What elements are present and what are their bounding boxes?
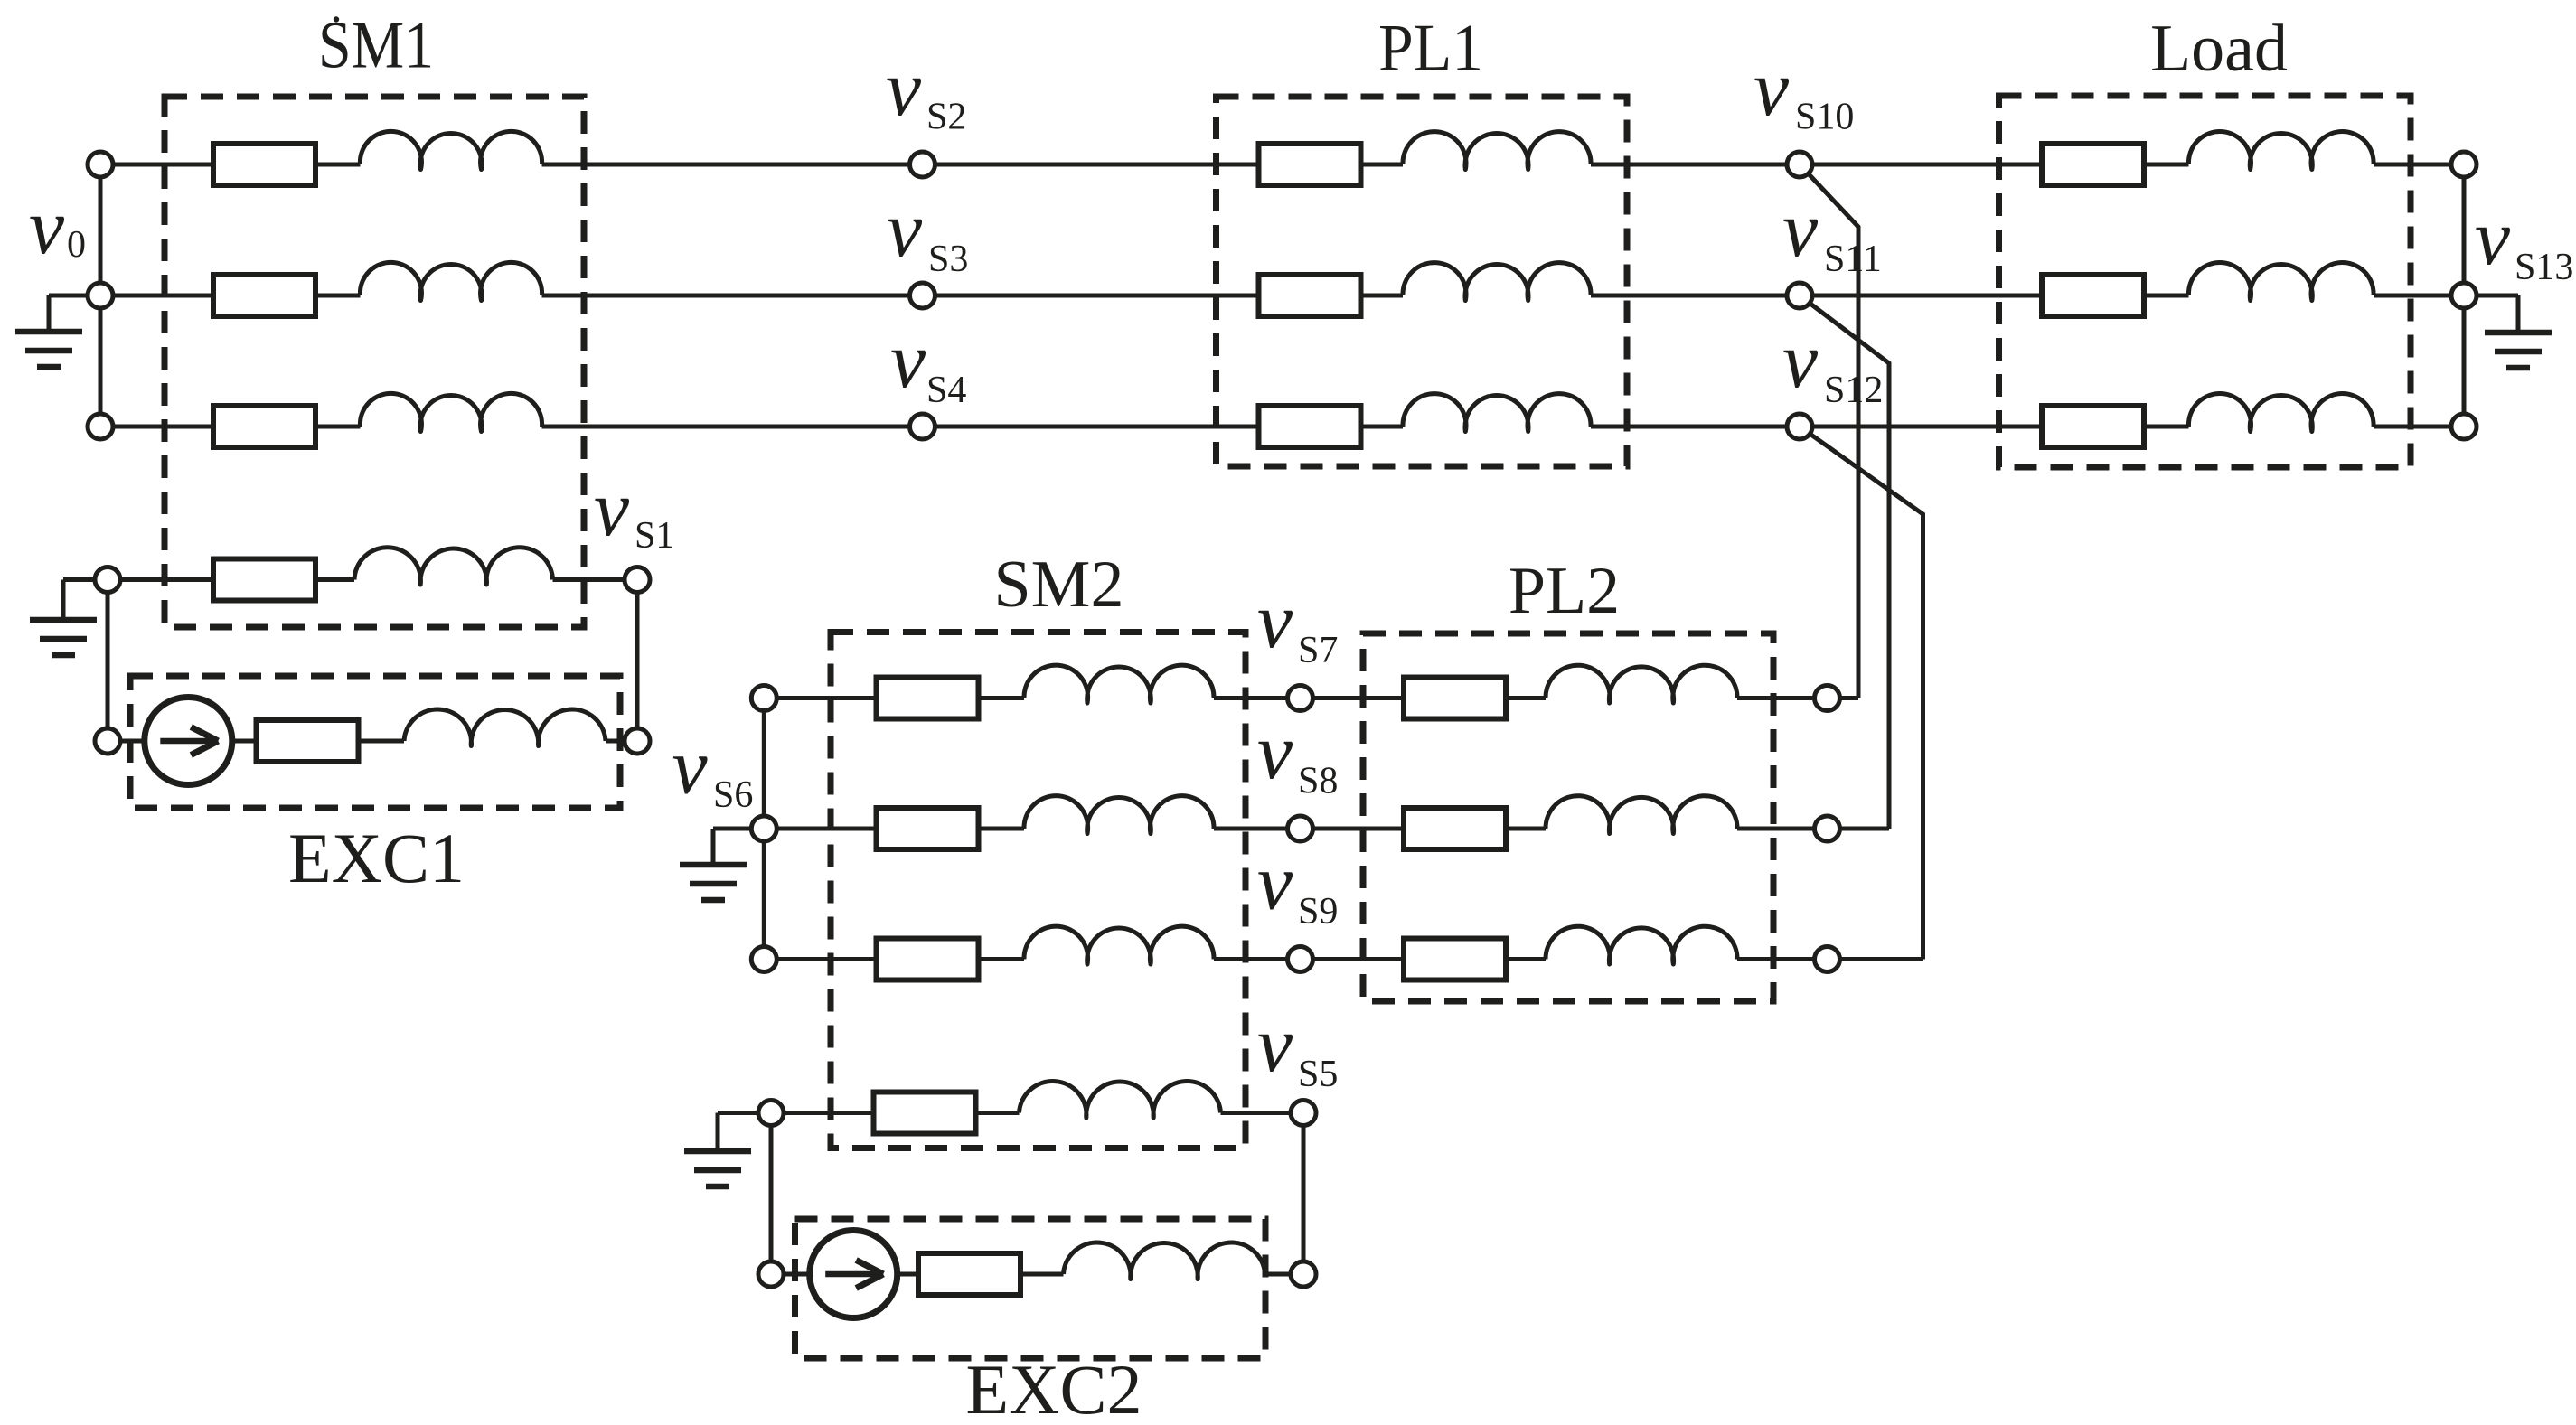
svg-text:v: v (1753, 45, 1790, 133)
svg-text:0: 0 (67, 224, 86, 266)
svg-text:S3: S3 (928, 239, 968, 280)
svg-text:v: v (1782, 186, 1819, 274)
svg-text:S11: S11 (1824, 239, 1882, 280)
svg-text:v: v (1257, 708, 1293, 796)
svg-text:S5: S5 (1298, 1054, 1338, 1095)
svg-text:v: v (594, 465, 630, 553)
svg-text:v: v (887, 186, 923, 274)
svg-text:v: v (2475, 194, 2511, 282)
svg-text:S1: S1 (635, 515, 674, 557)
svg-text:v: v (672, 724, 709, 811)
svg-text:v: v (1257, 577, 1293, 665)
svg-text:S10: S10 (1795, 97, 1854, 138)
svg-text:SM2: SM2 (994, 548, 1124, 622)
svg-text:v: v (890, 317, 926, 405)
svg-text:Load: Load (2150, 12, 2288, 86)
svg-text:PL2: PL2 (1509, 554, 1620, 628)
svg-text:v: v (1257, 839, 1293, 927)
svg-text:S13: S13 (2515, 247, 2573, 288)
svg-text:v: v (886, 45, 922, 133)
svg-text:v: v (1782, 317, 1819, 405)
svg-text:v: v (29, 183, 65, 271)
svg-text:EXC2: EXC2 (966, 1350, 1142, 1425)
svg-text:EXC1: EXC1 (288, 819, 465, 897)
svg-text:v: v (1257, 1001, 1293, 1089)
svg-text:S4: S4 (926, 370, 966, 411)
svg-text:PL1: PL1 (1378, 12, 1483, 86)
svg-text:S7: S7 (1298, 630, 1338, 671)
svg-text:S9: S9 (1298, 891, 1338, 933)
svg-text:S8: S8 (1298, 761, 1338, 802)
svg-text:S6: S6 (713, 774, 753, 816)
svg-text:S2: S2 (926, 97, 966, 138)
svg-text:S12: S12 (1824, 370, 1883, 411)
